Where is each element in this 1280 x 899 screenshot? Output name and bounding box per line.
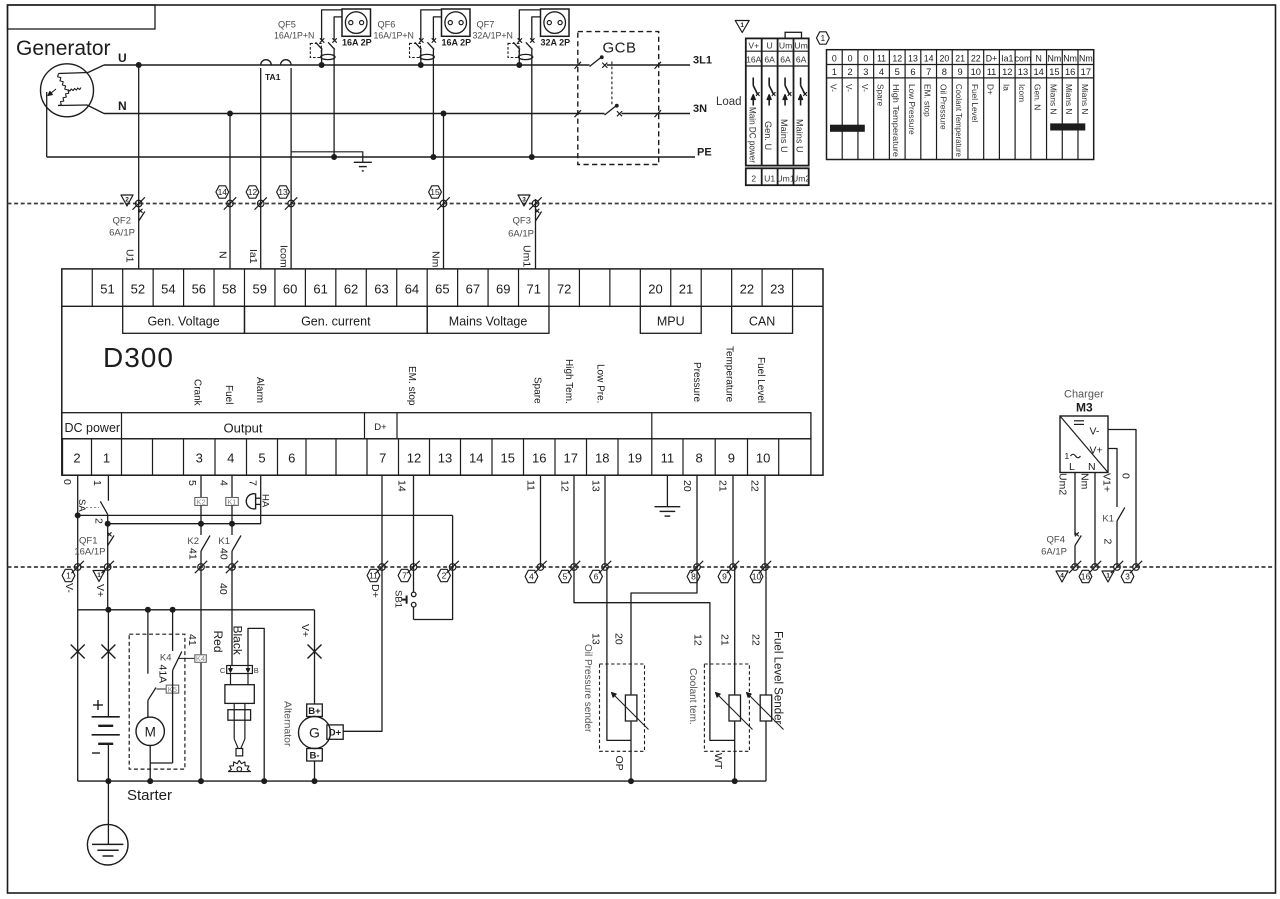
svg-text:1: 1 (1065, 451, 1070, 461)
svg-text:QF1: QF1 (79, 536, 97, 547)
junction bus oil sender (628, 778, 634, 784)
svg-text:4: 4 (218, 480, 230, 486)
svg-text:6A: 6A (780, 55, 791, 65)
svg-text:0: 0 (848, 54, 853, 64)
wire 22 into fuel sender (765, 567, 767, 695)
crossing marker wire 40 (229, 564, 236, 571)
svg-text:16A: 16A (746, 55, 762, 65)
alternator G (299, 704, 344, 781)
hexagon marker 13 (277, 186, 290, 198)
svg-text:61: 61 (313, 282, 327, 297)
svg-text:41: 41 (187, 548, 199, 560)
svg-text:Fuel: Fuel (223, 385, 234, 404)
hexagon marker 3 (1121, 570, 1134, 582)
svg-text:6A/1P: 6A/1P (109, 228, 135, 239)
svg-text:DC power: DC power (65, 421, 121, 435)
svg-text:Um: Um (794, 41, 807, 51)
circuit breaker QF1 (74, 532, 114, 557)
svg-text:Temperature: Temperature (723, 346, 734, 403)
svg-text:8: 8 (942, 67, 947, 77)
svg-text:6: 6 (594, 572, 599, 582)
junction QF5 to PE (331, 154, 337, 160)
svg-text:19: 19 (628, 451, 642, 466)
svg-text:22: 22 (749, 480, 761, 492)
wire Nm from 3N to terminal 65 (443, 114, 445, 269)
svg-text:41A: 41A (157, 665, 169, 684)
wire 41 to negative bus (200, 662, 202, 781)
GCB contact on 3L1 (575, 55, 662, 69)
wire 3N generator side (104, 113, 605, 115)
fuel solenoid black return wire (248, 628, 264, 781)
svg-text:6A/1P: 6A/1P (1041, 547, 1067, 558)
wire 14 EM stop terminal 12 (413, 475, 415, 567)
svg-text:13: 13 (438, 451, 452, 466)
junction bus alternator (312, 778, 318, 784)
svg-text:16: 16 (1081, 572, 1091, 582)
svg-text:EM. stop: EM. stop (406, 366, 417, 406)
svg-text:D+: D+ (986, 84, 996, 95)
junction QF7 to PE (529, 154, 535, 160)
svg-text:OP: OP (613, 756, 625, 771)
svg-text:16A/1P: 16A/1P (74, 547, 105, 558)
svg-text:Ia: Ia (1001, 84, 1011, 91)
hexagon marker 6 (590, 570, 603, 582)
svg-text:B-: B- (309, 750, 319, 761)
earth symbol terminal 11 (655, 506, 681, 508)
group box Mains Voltage (427, 306, 549, 333)
svg-text:L: L (1069, 461, 1075, 473)
svg-text:2: 2 (847, 67, 852, 77)
svg-text:62: 62 (344, 282, 358, 297)
svg-text:U1: U1 (124, 249, 136, 263)
svg-text:5: 5 (895, 67, 900, 77)
wire 0 from terminal 2 to battery minus bus (77, 475, 79, 781)
svg-text:B: B (254, 666, 259, 675)
negative return bus (78, 780, 766, 782)
svg-text:0: 0 (1120, 473, 1132, 479)
svg-text:Ia1: Ia1 (247, 249, 259, 264)
junction bus starter motor (147, 778, 153, 784)
D300 top terminal row (62, 269, 823, 306)
relay contact K1 fuel output (218, 524, 241, 567)
svg-text:16A 2P: 16A 2P (442, 38, 472, 48)
svg-text:13: 13 (278, 187, 288, 197)
svg-text:40: 40 (218, 548, 230, 560)
svg-text:64: 64 (405, 282, 419, 297)
svg-text:6A: 6A (764, 55, 775, 65)
wire 3L1 load side (607, 64, 690, 66)
GCB enclosure dashed box (578, 32, 659, 165)
D300 internal signal labels (191, 346, 766, 407)
svg-text:EM. stop: EM. stop (923, 84, 933, 117)
svg-text:4: 4 (1060, 572, 1064, 579)
svg-text:14: 14 (469, 451, 483, 466)
svg-text:16A/1P+N: 16A/1P+N (374, 31, 414, 41)
svg-text:Generator: Generator (16, 37, 111, 60)
svg-text:63: 63 (374, 282, 388, 297)
terminal table signal names (828, 84, 1089, 157)
svg-text:5: 5 (258, 451, 265, 466)
hexagon marker 9 (718, 570, 731, 582)
svg-text:QF3: QF3 (513, 216, 531, 227)
svg-text:5: 5 (563, 572, 568, 582)
svg-text:Black: Black (231, 626, 245, 656)
relay box K4 on wire 41 (195, 654, 207, 663)
svg-text:Mians N: Mians N (1048, 84, 1058, 114)
svg-text:M3: M3 (1076, 401, 1093, 415)
svg-text:U: U (118, 51, 127, 65)
crossing marker wire 0 (74, 564, 81, 571)
crossing marker wire 20 (694, 564, 701, 571)
circuit breaker QF5 (274, 10, 342, 157)
svg-text:D+: D+ (369, 584, 381, 598)
junction bus battery minus (105, 778, 111, 784)
svg-text:Charger: Charger (1064, 389, 1104, 401)
panel breaker pole 3 (783, 78, 791, 106)
svg-text:N: N (1036, 54, 1042, 64)
junction SA on wire 0 (75, 512, 81, 518)
svg-text:15: 15 (1049, 67, 1059, 77)
junction K1 coil rail (229, 521, 235, 527)
svg-text:K2: K2 (187, 536, 199, 547)
svg-text:Output: Output (223, 420, 262, 435)
hexagon marker 1 wire V- (62, 569, 75, 581)
svg-text:11: 11 (987, 67, 997, 77)
circuit breaker QF4 (1041, 532, 1081, 567)
wire 3L1 generator side (104, 64, 590, 66)
svg-text:2: 2 (1102, 539, 1114, 545)
hexagon marker 8 (687, 570, 700, 582)
svg-text:21: 21 (679, 282, 693, 297)
crossing marker wire 22 (762, 564, 769, 571)
svg-text:20: 20 (681, 480, 693, 492)
wire Icom from TA1 to terminal 60 (290, 68, 292, 269)
svg-text:D+: D+ (329, 727, 342, 738)
svg-text:20: 20 (939, 54, 949, 64)
circuit breaker QF7 (473, 10, 541, 157)
svg-text:MPU: MPU (657, 314, 685, 328)
svg-text:V-: V- (844, 84, 854, 92)
svg-text:16A 2P: 16A 2P (342, 38, 372, 48)
horn HA (246, 475, 260, 524)
battery isolator crossing mark wire 0 (71, 645, 85, 659)
svg-text:1: 1 (103, 451, 110, 466)
svg-text:Mians N: Mians N (1064, 84, 1074, 114)
svg-text:7: 7 (379, 451, 386, 466)
wire 40 to fuel solenoid (231, 567, 233, 666)
svg-text:13: 13 (590, 480, 602, 492)
svg-text:Um2: Um2 (1057, 473, 1069, 495)
svg-text:Fuel Level Sender: Fuel Level Sender (772, 631, 784, 725)
svg-text:2: 2 (125, 196, 129, 203)
svg-text:Gen. Voltage: Gen. Voltage (147, 314, 219, 328)
svg-text:7: 7 (402, 571, 407, 581)
svg-text:D+: D+ (374, 422, 387, 433)
panel bottom terminal labels (751, 174, 810, 184)
svg-text:8: 8 (695, 451, 702, 466)
svg-text:20: 20 (613, 633, 625, 645)
svg-text:Fuel Level: Fuel Level (970, 84, 980, 122)
svg-text:V-: V- (1090, 426, 1100, 438)
svg-text:32A/1P+N: 32A/1P+N (473, 31, 513, 41)
svg-text:14: 14 (396, 480, 408, 492)
wire D+ terminal 7 (381, 475, 383, 567)
svg-text:Nm: Nm (1079, 473, 1091, 490)
relay contact K5 in starter (148, 610, 179, 701)
coolant sender resistor (729, 695, 741, 781)
svg-text:Red: Red (211, 631, 225, 653)
junction QF6 to 3L1 (418, 62, 424, 68)
svg-text:12: 12 (559, 480, 571, 492)
switch SA blade (82, 501, 108, 514)
wire 21 coolant terminal 9 (732, 475, 734, 567)
svg-text:K2: K2 (197, 497, 206, 506)
junction rail net2 (105, 521, 111, 527)
battery isolator crossing mark wire V+ (101, 645, 115, 659)
oil pressure sender arrow (612, 693, 649, 730)
svg-text:U1: U1 (764, 174, 775, 184)
breaker panel frame (746, 32, 809, 185)
svg-text:GCB: GCB (603, 40, 637, 57)
svg-text:3: 3 (196, 451, 203, 466)
svg-text:V+: V+ (748, 41, 759, 51)
svg-text:2: 2 (751, 174, 756, 184)
terminal table hexagon marker 1 (817, 32, 830, 44)
panel circuit names (747, 107, 804, 163)
svg-text:52: 52 (131, 282, 145, 297)
svg-text:10: 10 (756, 451, 770, 466)
svg-text:V1+: V1+ (1101, 473, 1113, 492)
svg-text:High Temperature: High Temperature (891, 84, 901, 157)
wire 21 into sender (734, 567, 736, 695)
svg-text:Um2: Um2 (792, 174, 810, 184)
svg-text:Ia1: Ia1 (1001, 54, 1013, 64)
svg-text:Nm: Nm (1063, 54, 1077, 64)
svg-text:14: 14 (924, 54, 934, 64)
svg-text:SB1: SB1 (393, 590, 404, 608)
svg-text:3L1: 3L1 (693, 55, 712, 67)
svg-text:12: 12 (892, 54, 902, 64)
svg-text:2: 2 (442, 571, 447, 581)
svg-text:Alternator: Alternator (282, 701, 294, 747)
hexagon marker 2 (438, 569, 451, 581)
svg-text:32A 2P: 32A 2P (541, 38, 571, 48)
wire D+ down to alternator (343, 567, 382, 731)
svg-text:13: 13 (908, 54, 918, 64)
panel column headers (746, 41, 808, 65)
svg-text:0: 0 (863, 54, 868, 64)
crossing marker wire Ia1 (257, 200, 264, 207)
battery GB (92, 610, 120, 781)
svg-text:D+: D+ (986, 54, 998, 64)
svg-text:Nm: Nm (1048, 54, 1062, 64)
jumper bar terminals 1-3 (831, 125, 865, 131)
GCB mechanical link (611, 62, 613, 106)
terminal strip table frame (827, 50, 1094, 160)
svg-text:B+: B+ (308, 706, 321, 717)
fuel level sender arrow (747, 693, 784, 730)
wire U1 from 3L1 to terminal 52 (138, 65, 140, 269)
svg-text:G: G (309, 725, 320, 741)
svg-text:1: 1 (91, 480, 103, 486)
svg-text:21: 21 (717, 480, 729, 492)
hexagon marker 7 (398, 569, 411, 581)
svg-text:41: 41 (186, 634, 198, 646)
svg-text:Load: Load (716, 96, 742, 108)
svg-text:5: 5 (186, 480, 198, 486)
svg-text:72: 72 (557, 282, 571, 297)
D300 bottom function label row (62, 413, 811, 439)
wire 13 to oil pressure sender (607, 567, 631, 740)
svg-text:9: 9 (958, 67, 963, 77)
junction Nm on 3N (441, 111, 447, 117)
svg-text:Coolant Temperature: Coolant Temperature (954, 84, 964, 157)
jumper bar terminals 15-17 (1051, 124, 1085, 130)
starter motor M (136, 700, 164, 781)
page separator dashed line upper (8, 203, 1276, 205)
junction QF7 to 3L1 (516, 62, 522, 68)
svg-text:8: 8 (691, 572, 696, 582)
svg-text:K1: K1 (1102, 514, 1114, 525)
starter enclosure dashed box (129, 634, 185, 769)
svg-text:Coolant tem.: Coolant tem. (687, 668, 698, 725)
svg-text:Icom: Icom (1017, 84, 1027, 102)
relay coil K2 (195, 475, 208, 524)
svg-text:K4: K4 (196, 654, 205, 663)
svg-text:3N: 3N (693, 103, 707, 115)
svg-text:11: 11 (661, 451, 675, 466)
svg-text:D300: D300 (103, 342, 174, 373)
junction bus wire 41 (198, 778, 204, 784)
GCB contact on 3N (575, 104, 662, 117)
crossing marker wire U1 (135, 200, 142, 207)
fuel solenoid body (225, 674, 254, 756)
wire 1 from terminal 1 (107, 475, 109, 501)
svg-text:22: 22 (971, 54, 981, 64)
svg-text:Mains Voltage: Mains Voltage (449, 314, 528, 328)
svg-text:10: 10 (752, 572, 762, 582)
wire 3N load side (622, 113, 691, 115)
svg-text:17: 17 (1081, 67, 1091, 77)
svg-text:QF5: QF5 (278, 20, 296, 30)
svg-text:V+: V+ (299, 624, 311, 637)
svg-text:K1: K1 (218, 536, 230, 547)
svg-text:Mains U: Mains U (795, 119, 805, 153)
hexagon marker 11 D+ (367, 569, 380, 581)
triangle marker 1 charger (1102, 571, 1114, 582)
svg-text:K1: K1 (227, 497, 236, 506)
coolant sender arrow (716, 693, 753, 730)
wire Ia1 from TA1 to terminal 59 (260, 68, 262, 269)
svg-text:1: 1 (832, 67, 837, 77)
svg-text:Nm: Nm (430, 251, 442, 268)
svg-text:59: 59 (252, 282, 266, 297)
wire 41 to starter relay (200, 567, 202, 655)
push button SB1 (402, 567, 416, 620)
wire 11 spare terminal 16 (540, 475, 542, 567)
svg-text:Um: Um (779, 41, 792, 51)
relay coil K1 (226, 475, 239, 524)
svg-text:SA: SA (76, 499, 87, 512)
svg-text:6: 6 (288, 451, 295, 466)
svg-text:Crank: Crank (191, 379, 202, 407)
svg-text:CAN: CAN (749, 314, 775, 328)
svg-text:1: 1 (1106, 572, 1110, 579)
junction N on 3N (227, 111, 233, 117)
svg-text:N: N (217, 251, 229, 259)
crossing marker wire Icom (288, 200, 295, 207)
earth symbol near sockets (354, 161, 372, 163)
hexagon marker 12 (246, 186, 259, 198)
svg-text:Oil Pressure: Oil Pressure (938, 84, 948, 130)
svg-text:11: 11 (877, 54, 886, 64)
svg-text:HA: HA (260, 494, 271, 508)
svg-text:3: 3 (1125, 572, 1130, 582)
svg-text:3: 3 (863, 67, 868, 77)
svg-text:Starter: Starter (127, 787, 172, 804)
group box Gen. Voltage (123, 306, 245, 333)
battery charger M3 box (1060, 416, 1108, 473)
generator G1 symbol (41, 64, 94, 117)
hexagon marker 14 (216, 186, 229, 198)
panel triangle marker 1 (735, 21, 749, 33)
crossing marker wire 11 (537, 564, 544, 571)
svg-text:67: 67 (466, 282, 480, 297)
svg-text:M: M (145, 725, 156, 740)
coil return rail (108, 523, 261, 525)
crossing marker wire 21 (730, 564, 737, 571)
svg-text:2: 2 (73, 451, 80, 466)
svg-text:13: 13 (1018, 67, 1028, 77)
svg-text:10: 10 (971, 67, 981, 77)
hexagon marker 16 (1079, 570, 1092, 582)
crossing marker wire Nm (440, 200, 447, 207)
wire alternator B+ (314, 610, 316, 704)
svg-text:Gen. current: Gen. current (301, 314, 371, 328)
svg-text:18: 18 (595, 451, 609, 466)
svg-text:7: 7 (926, 67, 931, 77)
hexagon marker 4 (525, 570, 538, 582)
wire 22 fuel level terminal 10 (764, 475, 766, 567)
svg-text:2: 2 (93, 518, 105, 524)
terminal table terminal numbers row (832, 67, 1091, 77)
D300 bottom terminal row (63, 439, 811, 475)
triangle marker 1 wire V+ (93, 571, 105, 582)
junction bus coolant sender (732, 778, 738, 784)
panel breaker pole 1 (751, 78, 759, 106)
svg-text:Alarm: Alarm (254, 377, 265, 403)
svg-text:9: 9 (728, 451, 735, 466)
svg-text:Fuel Level: Fuel Level (755, 357, 766, 403)
wire Um1 to terminal 71 (535, 199, 537, 269)
junction QF5 to 3L1 (319, 62, 325, 68)
svg-text:9: 9 (722, 572, 727, 582)
socket outlet for QF6 (442, 9, 472, 48)
svg-text:Spare: Spare (531, 377, 542, 404)
wire N from 3N to terminal 58 (229, 114, 231, 269)
svg-text:16: 16 (532, 451, 546, 466)
protective earth symbol in circle (87, 824, 128, 865)
fuel level sender resistor (760, 695, 772, 781)
wire 12 high temp terminal 17 (573, 475, 575, 567)
generator frame earth wire (46, 92, 48, 157)
svg-text:High Tem.: High Tem. (563, 359, 574, 404)
relay contact K4 in starter (150, 610, 195, 763)
CT common earth tap wire (291, 152, 363, 163)
svg-text:58: 58 (222, 282, 236, 297)
svg-text:com: com (1015, 54, 1032, 64)
crossing marker charger V+ (1114, 564, 1121, 571)
